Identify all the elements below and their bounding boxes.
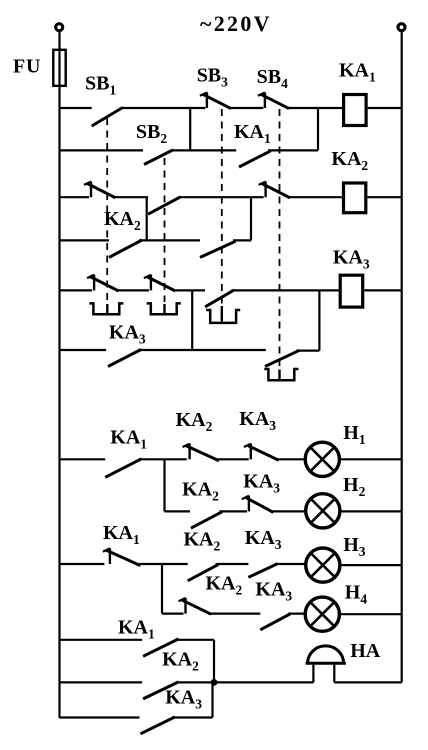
svg-text:KA2: KA2 bbox=[104, 208, 141, 233]
svg-text:SB3: SB3 bbox=[197, 65, 228, 90]
svg-text:KA3: KA3 bbox=[239, 408, 276, 433]
contact KA1 (NO, rung7) bbox=[105, 459, 141, 478]
svg-text:KA2: KA2 bbox=[176, 409, 213, 434]
svg-text:KA1: KA1 bbox=[110, 427, 147, 452]
wire left rail bbox=[58, 31, 60, 718]
svg-text:HA: HA bbox=[350, 640, 381, 662]
contact KA3 (NO, rung13) bbox=[141, 717, 176, 734]
contact KA2 (NC, rung7) bbox=[183, 444, 219, 461]
contact KA3 (NC, rung8) bbox=[242, 496, 274, 513]
wire rung13 KA3 bbox=[60, 716, 213, 718]
horn HA bbox=[306, 646, 346, 683]
wire rung6 bbox=[60, 349, 320, 352]
pushbutton SB4 (NC) bbox=[258, 92, 289, 108]
terminal right bbox=[398, 24, 405, 31]
svg-text:KA3: KA3 bbox=[333, 247, 370, 272]
svg-text:KA2: KA2 bbox=[182, 479, 219, 504]
lamp H1 bbox=[305, 442, 339, 476]
svg-text:H3: H3 bbox=[343, 534, 366, 559]
wire junction rung6 right up bbox=[318, 290, 320, 350]
svg-text:H2: H2 bbox=[343, 474, 366, 499]
wire rung12 KA2 / HA bbox=[60, 681, 402, 683]
svg-text:KA2: KA2 bbox=[331, 148, 368, 173]
dashed linkage SB3 bbox=[221, 109, 223, 306]
wire junction rung13 up bbox=[211, 682, 213, 717]
svg-text:KA3: KA3 bbox=[255, 579, 292, 604]
svg-text:H1: H1 bbox=[343, 422, 366, 447]
contact SB4-linked (NO, rung6) bbox=[265, 350, 299, 366]
stem cap1 bbox=[106, 304, 108, 313]
lamp H3 bbox=[306, 548, 340, 582]
contact NO rung3 mid bbox=[148, 197, 181, 214]
contact NC rung3 left bbox=[84, 181, 116, 197]
wire rung9 H3 bbox=[60, 564, 402, 565]
dashed linkage SB2 bbox=[164, 158, 166, 302]
pushbutton cap symbol 4 bbox=[264, 369, 298, 380]
contact KA2 (NO, rung9) bbox=[188, 564, 219, 580]
contact KA3 (NC, rung7) bbox=[244, 444, 279, 461]
svg-text:KA1: KA1 bbox=[118, 616, 155, 641]
svg-text:KA3: KA3 bbox=[245, 527, 282, 552]
wire rung4 bbox=[60, 239, 252, 241]
contact KA1 (NC, rung9) bbox=[103, 548, 140, 565]
contact NO rung4 left bbox=[109, 240, 142, 257]
svg-text:KA1: KA1 bbox=[234, 121, 271, 146]
stem cap3 bbox=[221, 306, 223, 322]
pushbutton cap symbol 2 bbox=[147, 303, 181, 314]
contact KA3 (NO, rung6) bbox=[108, 350, 141, 367]
svg-text:SB1: SB1 bbox=[85, 73, 116, 98]
contact NC rung5 first bbox=[87, 275, 119, 291]
lamp H4 bbox=[305, 597, 339, 631]
wire junction J1 bbox=[189, 108, 191, 150]
wire junction rung7-rung8 bbox=[163, 459, 165, 511]
wire junction rung3-rung4 left bbox=[146, 197, 148, 240]
wire junction rung9-rung10 bbox=[161, 564, 163, 614]
contact KA3 (NO, rung9) bbox=[248, 564, 277, 578]
wire rung7 H1 bbox=[60, 458, 402, 460]
wire junction J2 bbox=[317, 108, 319, 150]
contact KA2 (NC, rung10) bbox=[179, 598, 212, 614]
pushbutton SB1 (NO) bbox=[92, 108, 123, 127]
pushbutton SB2 (NO) bbox=[144, 150, 173, 165]
dashed linkage SB4 bbox=[279, 109, 281, 369]
svg-text:KA3: KA3 bbox=[165, 687, 202, 712]
svg-text:KA2: KA2 bbox=[206, 573, 243, 598]
contact KA2 (NO, rung12) bbox=[143, 682, 178, 699]
svg-text:FU: FU bbox=[13, 56, 41, 78]
fuse FU bbox=[53, 50, 65, 86]
svg-text:SB2: SB2 bbox=[136, 121, 167, 146]
svg-text:KA1: KA1 bbox=[339, 59, 376, 84]
wire rung10 H4 bbox=[162, 612, 402, 615]
terminal left bbox=[56, 24, 63, 31]
wire rung8 H2 bbox=[165, 510, 402, 512]
stem cap4 bbox=[278, 370, 280, 380]
wire rung11 KA1 bbox=[60, 639, 215, 641]
pushbutton SB3 (NC) bbox=[200, 92, 231, 108]
wire junction rung3-rung4 right bbox=[250, 197, 252, 240]
contact KA2 (NO, rung8) bbox=[191, 512, 222, 528]
contact KA1 (NO, rung2) bbox=[239, 151, 271, 167]
contact NC rung5 second bbox=[144, 275, 176, 291]
svg-text:KA1: KA1 bbox=[103, 522, 140, 547]
wire rung1 bbox=[60, 107, 402, 109]
contact KA1 (NO, rung11) bbox=[143, 639, 179, 656]
svg-text:KA2: KA2 bbox=[162, 649, 199, 674]
pushbutton cap symbol 1 bbox=[89, 303, 123, 314]
contact NO rung4 right bbox=[200, 241, 236, 257]
relay coil KA2 bbox=[344, 183, 366, 213]
lamp H2 bbox=[306, 494, 340, 528]
wire rung2 bbox=[60, 149, 319, 151]
svg-text:KA3: KA3 bbox=[243, 471, 280, 496]
stem cap2 bbox=[163, 304, 165, 313]
contact KA3 (NO, rung10) bbox=[260, 614, 290, 630]
svg-text:KA3: KA3 bbox=[109, 321, 146, 346]
wire right rail bbox=[401, 31, 403, 682]
relay coil KA3 bbox=[340, 275, 363, 307]
junction dot bbox=[211, 679, 218, 686]
relay coil KA1 bbox=[344, 95, 367, 126]
contact NC rung3 right bbox=[259, 181, 290, 197]
svg-text:~220V: ~220V bbox=[200, 11, 272, 36]
wire junction rung5-rung6 bbox=[191, 290, 193, 350]
dashed linkage SB1 bbox=[106, 118, 108, 302]
wire rung3 bbox=[60, 196, 402, 198]
wire rung5 bbox=[60, 289, 402, 291]
svg-text:H4: H4 bbox=[345, 582, 368, 607]
pushbutton cap symbol 3 bbox=[206, 310, 240, 323]
wire junction rung11-rung12 bbox=[213, 640, 215, 683]
svg-text:SB4: SB4 bbox=[257, 66, 288, 91]
svg-text:KA2: KA2 bbox=[184, 529, 221, 554]
contact NO rung5 third bbox=[205, 290, 234, 307]
